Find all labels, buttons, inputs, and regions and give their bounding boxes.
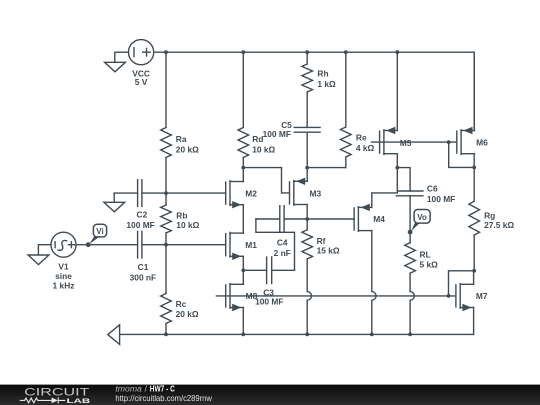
svg-text:V1: V1 — [58, 262, 69, 272]
svg-text:C1: C1 — [138, 262, 149, 272]
svg-text:Vo: Vo — [417, 213, 427, 222]
svg-text:100 MF: 100 MF — [255, 297, 283, 307]
svg-text:M1: M1 — [245, 240, 257, 250]
svg-text:15 kΩ: 15 kΩ — [317, 245, 340, 255]
svg-text:5 V: 5 V — [135, 77, 148, 87]
svg-text:CIRCUIT: CIRCUIT — [24, 387, 90, 399]
svg-text:M7: M7 — [476, 291, 488, 301]
svg-text:1 kΩ: 1 kΩ — [317, 79, 336, 89]
svg-text:RL: RL — [420, 250, 431, 260]
svg-text:Vi: Vi — [96, 227, 103, 236]
svg-text:100 MF: 100 MF — [427, 194, 455, 204]
svg-text:10 kΩ: 10 kΩ — [176, 220, 199, 230]
svg-text:HW7 - C: HW7 - C — [150, 384, 175, 393]
svg-text:10 kΩ: 10 kΩ — [252, 145, 275, 155]
svg-text:1 kHz: 1 kHz — [53, 281, 75, 291]
svg-text:Rf: Rf — [317, 236, 326, 246]
svg-text:Rh: Rh — [317, 69, 328, 79]
svg-text:20 kΩ: 20 kΩ — [176, 309, 199, 319]
svg-text:20 kΩ: 20 kΩ — [176, 144, 199, 154]
svg-text:C4: C4 — [277, 238, 288, 248]
svg-text:27.5 kΩ: 27.5 kΩ — [484, 220, 514, 230]
svg-text:tmoma: tmoma — [115, 384, 142, 393]
svg-text:http://circuitlab.com/c289rnw: http://circuitlab.com/c289rnw — [115, 394, 212, 403]
svg-text:300 nF: 300 nF — [130, 272, 157, 282]
svg-text:Re: Re — [356, 132, 367, 142]
svg-text:4 kΩ: 4 kΩ — [356, 143, 375, 153]
svg-text:100 MF: 100 MF — [126, 220, 154, 230]
svg-text:M2: M2 — [245, 188, 257, 198]
svg-text:C6: C6 — [427, 184, 438, 194]
svg-text:Rg: Rg — [484, 210, 495, 220]
svg-text:Rc: Rc — [176, 299, 187, 309]
svg-text:M5: M5 — [400, 138, 412, 148]
svg-text:2 nF: 2 nF — [274, 248, 291, 258]
svg-text:LAB: LAB — [67, 398, 91, 405]
svg-text:100 MF: 100 MF — [263, 129, 291, 139]
svg-text:sine: sine — [55, 271, 72, 281]
svg-text:Ra: Ra — [176, 134, 187, 144]
svg-text:C2: C2 — [137, 210, 148, 220]
svg-text:M6: M6 — [476, 138, 488, 148]
svg-text:5 kΩ: 5 kΩ — [420, 260, 439, 270]
svg-text:M4: M4 — [373, 214, 385, 224]
svg-text:M3: M3 — [310, 188, 322, 198]
